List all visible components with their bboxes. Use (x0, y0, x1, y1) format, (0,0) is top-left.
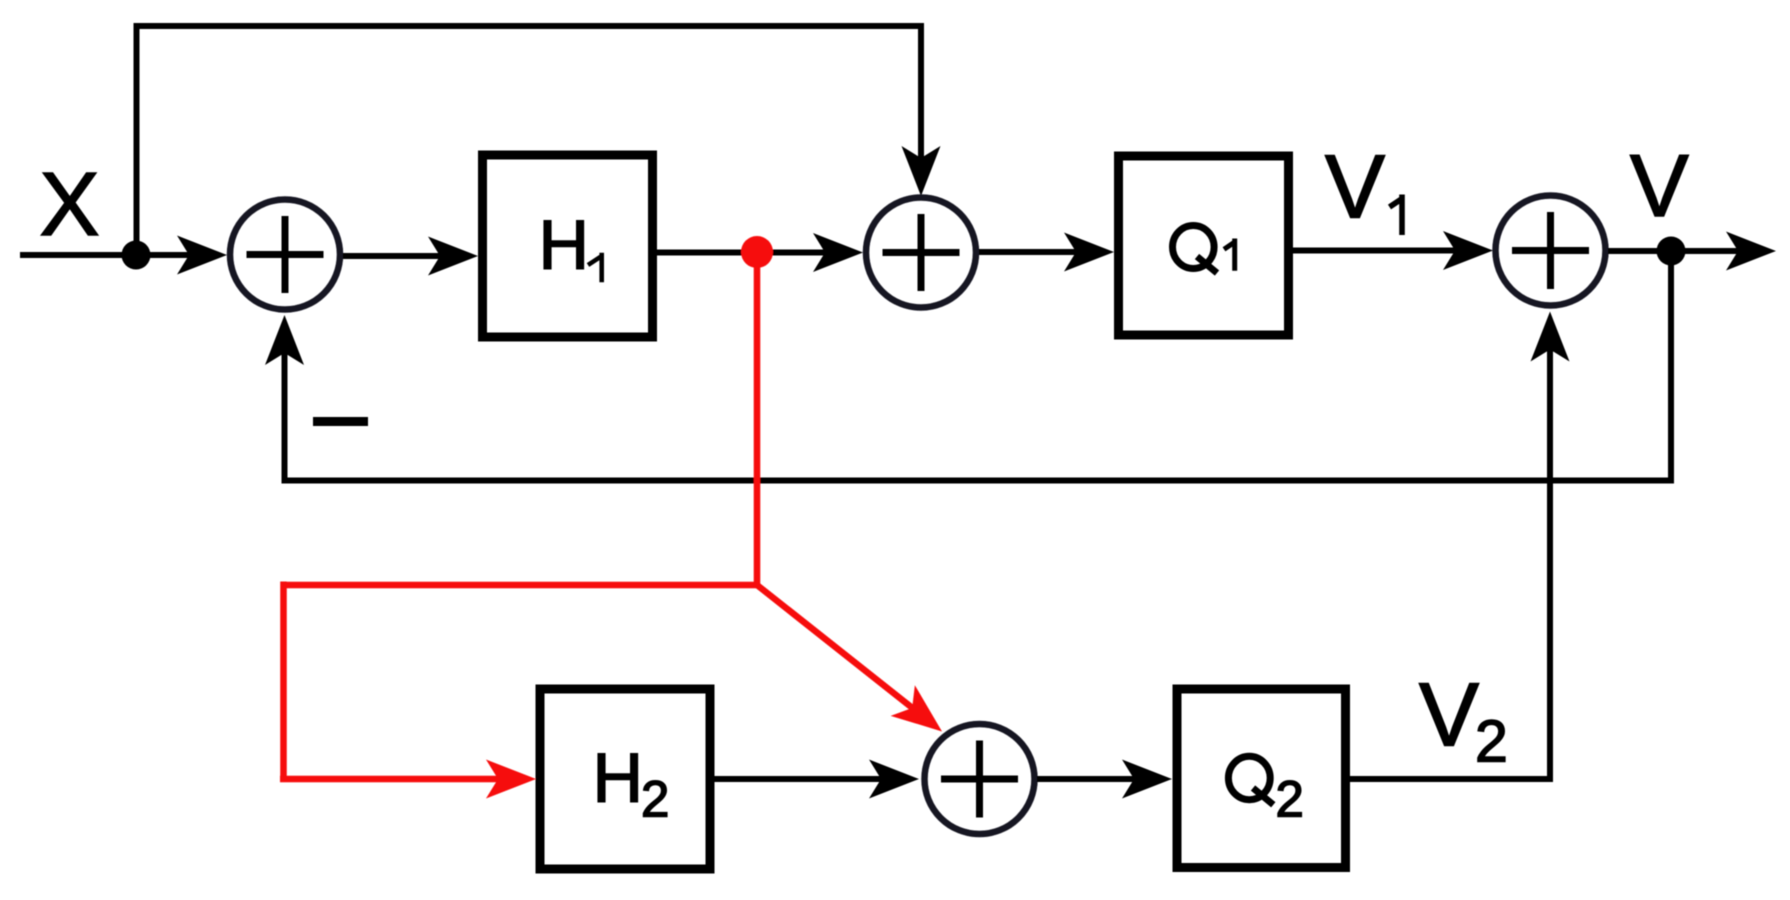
wire H2 to S4 (715, 776, 882, 782)
arrowhead feedforward into S2 top (902, 146, 941, 196)
arrowhead into Q1 left (1064, 233, 1114, 272)
label Q2 (1228, 756, 1270, 799)
wire red into H2 (280, 776, 500, 783)
svg-text:X: X (39, 155, 99, 255)
wire feedforward riser up from node (134, 23, 140, 255)
node V output junction dot (1657, 237, 1686, 266)
arrowhead V2 into S3 bottom (1531, 312, 1570, 362)
node red junction dot on H1 output (741, 236, 773, 268)
wire red drop from red node (754, 252, 761, 588)
arrowhead into S4 left (869, 760, 919, 799)
block Q1 box (1119, 156, 1289, 335)
svg-text:2: 2 (641, 771, 669, 828)
svg-text:2: 2 (1475, 709, 1508, 775)
wire feedforward top horizontal (134, 23, 925, 29)
wire S4 to Q2 (1037, 776, 1135, 782)
summer S2 plus sign (883, 214, 960, 291)
summer S4 plus sign (941, 741, 1018, 818)
arrowhead into H1 left (428, 237, 478, 276)
arrowhead into S1 left (177, 236, 227, 275)
wire red left drop (280, 582, 287, 783)
wire H1 to S2 (657, 250, 825, 256)
svg-text:V: V (1325, 138, 1385, 238)
wire Q2 to V2 riser (1350, 776, 1553, 782)
svg-text:V: V (1419, 666, 1479, 766)
wire feedforward drop into summer S2 (918, 23, 924, 160)
arrowhead into Q2 left (1122, 760, 1172, 799)
arrowhead red into H2 (486, 760, 536, 799)
summer S1 circle (230, 200, 340, 310)
summer S2 circle (866, 198, 976, 308)
arrowhead output (1726, 232, 1776, 271)
wire S3 to output (1608, 248, 1740, 254)
wire S2 to Q1 (979, 249, 1077, 255)
svg-text:H: H (593, 739, 644, 817)
label minus sign (313, 417, 368, 426)
block H1 box (483, 155, 653, 337)
wire V2 riser up to S3 (1547, 330, 1553, 782)
summer S3 circle (1496, 196, 1606, 306)
wire red horizontal left branch (284, 582, 761, 589)
summer S3 plus sign (1512, 212, 1589, 289)
label Q1 (1173, 226, 1215, 269)
wire feedback horizontal (282, 478, 1675, 484)
arrowhead red diagonal into S4 (891, 685, 954, 747)
wire input X to node (20, 252, 140, 258)
wire Q1 to S3 (1293, 248, 1455, 254)
svg-text:H: H (539, 206, 590, 284)
arrowhead feedback into S1 bottom (265, 315, 304, 365)
svg-text:V: V (1630, 136, 1689, 235)
svg-text:2: 2 (1276, 771, 1304, 828)
wire feedback riser to S1 bottom (282, 330, 288, 484)
wire V node drop to feedback (1668, 251, 1674, 484)
wire S1 to H1 (343, 253, 440, 259)
block Q2 box (1177, 689, 1346, 868)
node input junction dot (122, 241, 151, 270)
arrowhead into S3 left (1443, 231, 1493, 270)
summer S4 circle (925, 724, 1035, 834)
wire node to summer S1 (136, 252, 190, 258)
summer S1 plus sign (247, 216, 324, 293)
wire red diagonal to S4 (757, 585, 915, 710)
arrowhead into S2 left (813, 233, 863, 272)
block H2 box (540, 689, 710, 869)
